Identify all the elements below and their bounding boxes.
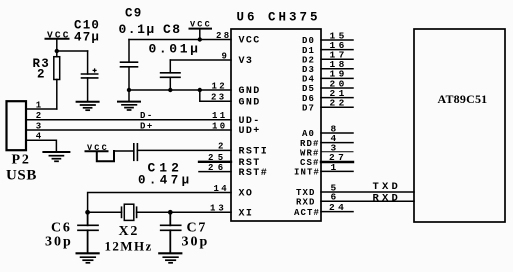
connector P2 bbox=[7, 101, 27, 150]
capacitor C6 bbox=[78, 212, 98, 253]
wire GND rail to pin 12 bbox=[129, 89, 231, 91]
svg-text:USB: USB bbox=[6, 168, 37, 184]
svg-text:AT89C51: AT89C51 bbox=[438, 92, 488, 106]
wire D7 stub bbox=[321, 106, 353, 108]
svg-text:25: 25 bbox=[208, 153, 228, 163]
wire D4 stub bbox=[321, 77, 353, 79]
capacitor C8 bbox=[161, 60, 231, 90]
power VCC (top-left) bbox=[46, 30, 71, 52]
capacitor C10 bbox=[82, 51, 98, 102]
svg-text:13: 13 bbox=[210, 204, 227, 214]
wire pin 23 branch bbox=[200, 90, 231, 101]
wire RSTI (pin 2) bbox=[137, 149, 231, 151]
wire WR# stub bbox=[321, 151, 353, 153]
svg-text:GND: GND bbox=[239, 98, 261, 109]
wire pin1 bbox=[26, 108, 57, 110]
svg-text:11: 11 bbox=[212, 111, 228, 121]
svg-text:12MHz: 12MHz bbox=[105, 239, 153, 254]
svg-text:RD#: RD# bbox=[300, 139, 320, 149]
wire INT# stub bbox=[321, 170, 353, 172]
svg-text:D2: D2 bbox=[302, 55, 315, 65]
node junction VCC rail bbox=[198, 37, 202, 41]
wire D- (USB pin2 to UD-) bbox=[26, 119, 231, 121]
svg-text:23: 23 bbox=[211, 93, 227, 103]
svg-text:2: 2 bbox=[37, 68, 46, 82]
svg-text:30p: 30p bbox=[45, 235, 73, 250]
wire crystal right lead bbox=[137, 211, 171, 213]
svg-text:D+: D+ bbox=[140, 122, 154, 132]
svg-text:INT#: INT# bbox=[294, 168, 320, 178]
ground (C7) bbox=[159, 253, 181, 262]
wire XO (pin 14) bbox=[88, 193, 231, 213]
svg-text:GND: GND bbox=[239, 86, 261, 97]
svg-text:UD+: UD+ bbox=[239, 126, 261, 137]
svg-text:RSTI: RSTI bbox=[239, 147, 269, 158]
svg-text:ACT#: ACT# bbox=[294, 208, 320, 218]
wire D2 stub bbox=[321, 58, 353, 60]
node junction R3/VCC/C10 bbox=[55, 49, 59, 53]
svg-text:U6 CH375: U6 CH375 bbox=[237, 11, 321, 25]
wire RST# stub (pin 26) bbox=[199, 171, 231, 173]
svg-text:D5: D5 bbox=[302, 84, 315, 94]
svg-text:0.47μ: 0.47μ bbox=[138, 174, 193, 188]
svg-text:D7: D7 bbox=[302, 103, 315, 113]
svg-text:28: 28 bbox=[216, 31, 232, 41]
node junction GND rail / pin23 branch bbox=[198, 88, 202, 92]
wire D+ (USB pin3 to UD+) bbox=[26, 129, 231, 131]
capacitor C9 bbox=[121, 40, 138, 91]
svg-text:C7: C7 bbox=[187, 221, 208, 236]
wire D1 stub bbox=[321, 49, 353, 51]
power VCC (C12 reset) bbox=[86, 143, 134, 162]
svg-text:47μ: 47μ bbox=[74, 31, 100, 45]
svg-text:WR#: WR# bbox=[300, 148, 320, 158]
svg-text:0.1μ: 0.1μ bbox=[119, 22, 156, 37]
svg-text:30p: 30p bbox=[182, 235, 210, 250]
wire CS# stub bbox=[321, 161, 353, 163]
svg-text:C9: C9 bbox=[125, 7, 142, 21]
resistor R3 bbox=[54, 51, 60, 109]
svg-text:VCC: VCC bbox=[239, 36, 261, 47]
svg-text:D3: D3 bbox=[302, 65, 315, 75]
capacitor C12 bbox=[134, 144, 138, 161]
svg-text:D6: D6 bbox=[302, 94, 315, 104]
node junction C9/GND rail bbox=[127, 88, 131, 92]
wire crystal left lead bbox=[88, 211, 122, 213]
svg-text:D4: D4 bbox=[302, 75, 315, 85]
wire pin4 to ground bbox=[26, 140, 56, 152]
ground (C10) bbox=[77, 102, 99, 110]
svg-text:XO: XO bbox=[239, 189, 254, 200]
svg-text:14: 14 bbox=[214, 184, 230, 194]
svg-text:X2: X2 bbox=[119, 224, 140, 239]
svg-text:D1: D1 bbox=[302, 46, 315, 56]
wire VCC rail to pin 28 bbox=[129, 39, 231, 41]
svg-text:P2: P2 bbox=[12, 153, 31, 168]
wire C9 to ground bbox=[128, 90, 130, 101]
ground (C6) bbox=[77, 253, 99, 262]
ground (C9) bbox=[118, 102, 140, 110]
svg-text:V3: V3 bbox=[239, 56, 254, 67]
svg-text:A0: A0 bbox=[302, 129, 315, 139]
capacitor C7 bbox=[161, 212, 181, 253]
crystal X2 bbox=[122, 204, 137, 220]
svg-text:0.01μ: 0.01μ bbox=[149, 42, 201, 57]
svg-text:D-: D- bbox=[140, 111, 154, 121]
ground (USB pin4) bbox=[43, 152, 69, 161]
wire D5 stub bbox=[321, 87, 353, 89]
wire junction to C10 bbox=[57, 50, 88, 52]
svg-text:RXD: RXD bbox=[296, 198, 316, 208]
wire TXD to AT89C51 bbox=[321, 191, 414, 193]
wire A0 stub bbox=[321, 132, 353, 134]
svg-text:C6: C6 bbox=[51, 221, 72, 236]
svg-text:RST#: RST# bbox=[239, 168, 269, 179]
wire RST stub (pin 25) bbox=[199, 161, 231, 163]
wire RXD to AT89C51 bbox=[321, 200, 414, 202]
wire XI (pin 13) bbox=[170, 211, 231, 213]
svg-text:12: 12 bbox=[212, 81, 228, 91]
node junction crystal left / C6 bbox=[85, 210, 90, 215]
IC AT89C51 box bbox=[414, 29, 505, 222]
svg-text:26: 26 bbox=[208, 163, 228, 173]
wire D0 stub bbox=[321, 39, 353, 41]
svg-text:RXD: RXD bbox=[373, 192, 402, 204]
svg-text:TXD: TXD bbox=[373, 181, 402, 193]
svg-text:9: 9 bbox=[222, 51, 230, 61]
wire ACT# stub bbox=[321, 211, 353, 213]
power VCC (pin 28) bbox=[190, 20, 212, 40]
svg-text:XI: XI bbox=[239, 209, 254, 220]
node junction crystal right / C7 bbox=[168, 210, 173, 215]
wire RD# stub bbox=[321, 142, 353, 144]
svg-text:CS#: CS# bbox=[300, 158, 320, 168]
svg-text:10: 10 bbox=[212, 121, 228, 131]
wire D3 stub bbox=[321, 68, 353, 70]
op IC U6 CH375 box bbox=[231, 29, 321, 221]
svg-text:C8: C8 bbox=[163, 22, 182, 37]
svg-text:2: 2 bbox=[218, 142, 226, 152]
wire D6 stub bbox=[321, 97, 353, 99]
node junction C8/GND rail bbox=[168, 88, 172, 92]
svg-text:D0: D0 bbox=[302, 36, 315, 46]
